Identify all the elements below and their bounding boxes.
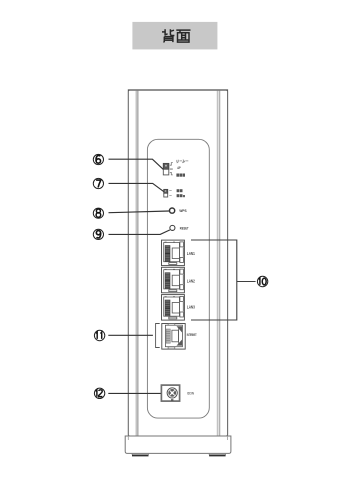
svg-text:WPS: WPS <box>179 209 187 213</box>
callout 8 <box>93 208 103 218</box>
RESET hole <box>170 225 189 230</box>
bracket for callout 11 (INTERNET) <box>156 324 160 348</box>
DC IN jack <box>161 385 194 401</box>
SW1 label 中継機 (kanji blobs) <box>176 174 185 177</box>
right seam groove <box>217 91 221 436</box>
SW1 label ROUTER (katakana) <box>177 160 189 163</box>
svg-text:INTERNET: INTERNET <box>187 333 197 337</box>
tower body outline <box>128 90 228 436</box>
kanji 面 <box>176 30 190 42</box>
LAN port 3 <box>162 295 185 321</box>
callout 6 leader <box>109 159 164 169</box>
callout 7 <box>93 178 103 188</box>
label INTERNET <box>187 333 197 337</box>
svg-text:LAN2: LAN2 <box>187 279 195 284</box>
svg-text:LAN3: LAN3 <box>187 305 195 310</box>
bracket for callout 10 (LAN group) <box>191 240 256 320</box>
left foot <box>132 453 149 455</box>
LAN port 1 <box>162 240 185 266</box>
position tick top <box>170 163 173 166</box>
LAN port 2 <box>162 267 185 293</box>
callout 12 leader <box>108 392 161 394</box>
SW1 label AP <box>177 166 181 170</box>
callout 10 <box>257 276 267 286</box>
label LAN1 <box>187 251 195 256</box>
svg-text:LAN1: LAN1 <box>187 251 195 256</box>
header bar 背面 <box>132 22 217 50</box>
label LAN3 <box>187 305 195 310</box>
callout 9 leader <box>109 230 170 235</box>
base pedestal <box>125 436 231 453</box>
left seam groove <box>136 91 139 436</box>
callout 11 <box>94 330 104 340</box>
power switch SW2 <box>164 189 172 197</box>
callout 12 <box>94 388 104 398</box>
right foot <box>209 453 226 455</box>
svg-text:AP: AP <box>177 166 181 170</box>
position tick bottom <box>170 172 173 175</box>
INTERNET port <box>162 324 185 350</box>
callout 9 <box>93 229 103 239</box>
position tick middle <box>170 168 173 169</box>
label LAN2 <box>187 279 195 284</box>
svg-text:DC IN: DC IN <box>188 391 195 395</box>
recessed rear panel <box>147 139 209 418</box>
callout 11 leader <box>108 334 153 336</box>
mode switch SW1 <box>163 163 173 175</box>
callout 7 leader <box>109 183 164 191</box>
SW2 labels (kanji blobs) <box>177 189 185 197</box>
kanji 背 <box>162 29 174 42</box>
svg-text:RESET: RESET <box>180 226 189 230</box>
callout 6 <box>93 154 103 164</box>
WPS button <box>170 208 188 213</box>
callout 8 leader <box>109 211 170 213</box>
